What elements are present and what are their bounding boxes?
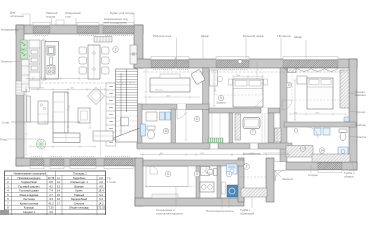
svg-text:10: 10	[164, 129, 168, 133]
coffee table	[78, 108, 90, 123]
svg-text:Прихожая-коридор: Прихожая-коридор	[18, 176, 41, 180]
svg-text:Гардеробный: Гардеробный	[71, 197, 88, 201]
leader bed2	[245, 38, 247, 61]
shower room lines	[211, 113, 213, 138]
window K1 top-left	[33, 27, 50, 34]
svg-text:41.2: 41.2	[48, 201, 54, 205]
node room9	[218, 95, 224, 101]
door gap wall C	[261, 108, 268, 114]
svg-text:Гостевой санузел: Гостевой санузел	[18, 184, 40, 188]
svg-text:Зеркало: Зеркало	[216, 102, 226, 105]
window B4 top-right wide	[283, 61, 338, 68]
svg-text:Общая площадь: Общая площадь	[69, 206, 90, 210]
shoe cabinet hatch 2	[312, 154, 350, 162]
wall bottom-right block	[272, 162, 357, 170]
porch door gap	[274, 162, 286, 170]
dryer cabinet	[227, 164, 238, 174]
window S3 bottom-left	[70, 159, 96, 166]
sill B2	[176, 57, 189, 60]
window S5 bottom-right	[318, 163, 342, 170]
svg-text:4.2: 4.2	[49, 184, 53, 188]
svg-text:6: 6	[167, 172, 169, 176]
svg-text:Бойлер: Бойлер	[356, 123, 366, 127]
node room1	[244, 164, 250, 170]
svg-text:Буфет для посуды: Буфет для посуды	[110, 11, 135, 15]
svg-text:Кухня: Кухня	[76, 189, 84, 193]
entry bench hatch	[241, 188, 267, 197]
svg-text:2.0: 2.0	[99, 176, 103, 180]
sink right bath	[338, 147, 348, 156]
leader pled	[7, 138, 40, 140]
svg-text:Шкаф: Шкаф	[294, 35, 303, 39]
svg-text:Мини-кладовая: Мини-кладовая	[20, 193, 39, 197]
svg-text:Спальня дет. 1: Спальня дет. 1	[70, 180, 88, 184]
svg-text:1800: 1800	[236, 75, 240, 77]
svg-text:Полотенцесушитель: Полотенцесушитель	[206, 209, 234, 213]
node room2	[113, 47, 119, 53]
leader island	[51, 18, 53, 24]
svg-text:3200: 3200	[26, 89, 28, 93]
node room7	[250, 129, 256, 135]
svg-text:1 этаж: 1 этаж	[107, 180, 116, 184]
wall top-right block	[134, 59, 357, 68]
leader right low1	[310, 165, 312, 173]
stairs outline	[116, 69, 138, 142]
leader wardrobe2	[202, 38, 204, 61]
svg-text:Наименование помещений: Наименование помещений	[14, 171, 47, 175]
svg-text:Рабочая зона: Рабочая зона	[153, 34, 172, 38]
dashed ceiling box bedroom	[215, 70, 262, 95]
washbasin	[146, 112, 157, 121]
window S4 bottom-left	[104, 159, 133, 166]
wall entry right	[266, 158, 274, 202]
wall small-bath left	[137, 104, 142, 148]
svg-text:2450: 2450	[166, 95, 170, 97]
leader dining	[75, 18, 77, 25]
plant boxes green	[21, 40, 28, 49]
leader towel	[221, 198, 223, 209]
svg-text:900: 900	[160, 153, 163, 155]
svg-text:Зеркало: Зеркало	[282, 177, 294, 181]
sill S2	[50, 166, 64, 169]
svg-text:Кондиционер: Кондиционер	[243, 152, 261, 156]
door gap wall E left	[210, 143, 218, 149]
dining chairs right	[102, 47, 110, 54]
sill B4	[283, 57, 338, 60]
radiator dashes under windows	[31, 36, 247, 157]
leader rozetki	[11, 61, 20, 63]
svg-text:7.4: 7.4	[49, 189, 53, 193]
svg-text:12: 12	[287, 83, 291, 87]
window B1 top-right	[151, 61, 175, 68]
svg-text:13: 13	[301, 147, 305, 151]
TV unit	[27, 96, 31, 122]
dashed line bedrooms	[143, 71, 348, 73]
svg-text:машина: машина	[355, 93, 366, 97]
svg-text:171.53: 171.53	[97, 206, 105, 210]
svg-text:Шкаф: Шкаф	[201, 34, 210, 38]
dim line living v	[67, 93, 69, 127]
tall cupboard right of dining	[130, 45, 137, 64]
svg-text:850: 850	[294, 112, 297, 114]
corner dark box	[0, 210, 9, 215]
shoe cabinet hatch 1	[286, 146, 313, 158]
sill S1	[30, 166, 44, 169]
svg-text:Санузел 1: Санузел 1	[23, 210, 36, 214]
wall bathrow v1	[229, 113, 233, 143]
desk bedroom	[210, 70, 218, 86]
side console	[38, 101, 48, 124]
stairs break line	[114, 128, 140, 138]
shelf hatch bedroom3	[288, 68, 297, 73]
leader tv	[280, 38, 282, 61]
door gap wall B	[177, 104, 186, 110]
svg-text:Стирка: Стирка	[308, 173, 318, 177]
dim line living h1	[31, 89, 105, 91]
door arc room6	[150, 166, 158, 174]
svg-text:5.2: 5.2	[99, 193, 103, 197]
leader right4	[350, 136, 356, 138]
vanity double sink	[200, 182, 214, 192]
big table TV zone	[150, 78, 190, 92]
hatched cabinet strip	[235, 114, 241, 140]
porch door arc	[275, 170, 286, 181]
leader sliv	[11, 121, 80, 123]
kitchen dim line	[26, 78, 88, 80]
wall small-bath mid	[171, 109, 176, 144]
svg-text:9: 9	[220, 96, 222, 100]
bath7 panel lines	[261, 113, 263, 143]
wall right	[349, 59, 357, 170]
kitchen island	[42, 40, 59, 80]
bookshelf left of stairs	[106, 83, 116, 146]
window left wall	[16, 81, 24, 95]
wall under-bedrooms	[209, 108, 280, 113]
interior walls	[137, 68, 356, 198]
node room10	[163, 128, 169, 134]
sideboard under window	[94, 37, 112, 43]
svg-text:Лестница: Лестница	[23, 197, 35, 201]
sill B1	[151, 57, 175, 60]
toilet small bath	[147, 126, 155, 130]
room6 bottom rect	[152, 194, 178, 198]
leader right3	[350, 124, 356, 126]
leader zerkalo	[274, 170, 281, 177]
svg-text:Унитаз: Унитаз	[357, 135, 367, 139]
stairs treads dashed lower	[116, 116, 138, 131]
wall item blue	[344, 117, 349, 122]
svg-text:Главный: Главный	[74, 193, 85, 197]
washer blue	[227, 185, 238, 197]
door arc bath5	[206, 166, 213, 173]
kitchen dim numbers	[26, 77, 64, 132]
sill S4	[104, 166, 133, 169]
sofa vertical	[53, 92, 68, 133]
wall bottom-rooms top	[143, 160, 244, 166]
dashed ceiling box bedroom3	[292, 72, 342, 100]
top-left outside dim ticks	[56, 20, 64, 25]
svg-text:обувницей: обувницей	[240, 212, 255, 216]
wall left	[16, 25, 24, 166]
corridor wardrobe hatch	[275, 128, 282, 142]
node room5	[194, 171, 200, 177]
armchair rotated	[88, 88, 105, 105]
right room dim	[294, 80, 296, 120]
svg-text:2: 2	[115, 48, 117, 52]
shower heads blue pair	[160, 112, 165, 120]
window B2 top-right	[176, 61, 189, 68]
svg-text:Коридор: Коридор	[24, 206, 35, 210]
ottoman	[93, 131, 113, 141]
laundry shelf	[222, 182, 226, 194]
svg-text:ТВ зона: ТВ зона	[155, 90, 164, 92]
sill B3	[216, 57, 249, 60]
wall bedroom2 right	[280, 68, 287, 162]
leader right1	[350, 93, 355, 95]
wall step vertical	[134, 25, 143, 68]
svg-text:Большой шкаф: Большой шкаф	[243, 34, 264, 38]
svg-text:9.4: 9.4	[49, 197, 53, 201]
svg-text:1200: 1200	[200, 153, 204, 155]
window S2 bottom-left	[50, 159, 64, 166]
shower bottom bath	[201, 167, 210, 176]
wall room6/bath divider	[196, 166, 200, 198]
node room14	[319, 148, 325, 154]
desk bedroom3	[297, 76, 307, 84]
svg-text:Слив: Слив	[2, 120, 9, 124]
svg-text:1: 1	[246, 165, 248, 169]
svg-text:Розетки: Розетки	[1, 60, 12, 64]
svg-text:14: 14	[320, 149, 324, 153]
window K2 top-left	[77, 27, 99, 34]
svg-text:4: 4	[228, 172, 230, 176]
node room8	[194, 116, 200, 122]
extra dimension chains	[25, 75, 347, 155]
door arc wall F	[307, 127, 318, 138]
svg-text:4.0: 4.0	[99, 180, 103, 184]
svg-text:6.8: 6.8	[49, 180, 53, 184]
stairs landing box	[121, 118, 129, 126]
svg-text:Гостиный диван: Гостиный диван	[19, 189, 39, 193]
sill K1	[33, 22, 50, 25]
window K3 top-left	[103, 27, 134, 34]
svg-text:7: 7	[252, 130, 254, 134]
node room13	[300, 146, 306, 152]
wall bath/laundry divider	[217, 166, 221, 198]
wall entry left	[238, 158, 244, 202]
svg-text:5.4: 5.4	[99, 197, 103, 201]
wall step bottom	[135, 158, 143, 206]
svg-text:остальных: остальных	[10, 14, 25, 18]
bedroom dim vertical	[213, 70, 215, 106]
node room13b	[294, 129, 298, 133]
leader sideboard	[133, 14, 135, 26]
svg-text:4.9: 4.9	[99, 184, 103, 188]
wall top-left block	[16, 25, 143, 34]
bedroom dim marks	[256, 62, 258, 79]
toilet bottom bath	[214, 169, 218, 176]
stairs treads	[116, 72, 138, 111]
leader coffee	[119, 24, 121, 27]
svg-text:2.7: 2.7	[49, 193, 53, 197]
door gap wall E right	[250, 143, 258, 149]
svg-text:Кухня-гостиная: Кухня-гостиная	[20, 201, 39, 205]
wardrobe hatch bedroom3	[340, 70, 349, 108]
leader cond entry	[263, 152, 288, 154]
svg-text:1750: 1750	[315, 112, 319, 114]
svg-text:7.20: 7.20	[48, 206, 54, 210]
svg-text:обувью: обувью	[344, 175, 355, 179]
curtain swags window B4	[284, 69, 338, 72]
plant circle	[36, 139, 46, 149]
dim vertical near stairs	[145, 70, 147, 104]
svg-text:1500: 1500	[69, 105, 71, 109]
stairs center stringer	[126, 69, 128, 112]
toilet right bath	[339, 129, 347, 133]
leader right2	[350, 111, 356, 113]
green bench	[208, 138, 223, 143]
svg-text:Кондиционер: Кондиционер	[1, 27, 19, 31]
wall small-bath top	[137, 104, 209, 110]
dining chairs left	[79, 47, 109, 74]
leader plants	[21, 14, 30, 26]
leader cond left	[15, 28, 24, 30]
leader bed1	[176, 38, 178, 61]
dining table	[88, 45, 100, 79]
table frame	[5, 171, 106, 215]
nightstand m1	[229, 79, 233, 85]
wall corridor north	[137, 143, 292, 149]
corridor dim line	[140, 154, 290, 156]
room6 inner outline	[146, 167, 188, 187]
svg-text:Гардеробная: Гардеробная	[21, 180, 37, 184]
svg-text:14.2: 14.2	[98, 201, 104, 205]
svg-text:2200: 2200	[215, 88, 217, 92]
bathtub	[243, 118, 260, 129]
sill K3	[103, 22, 134, 25]
bed master	[233, 79, 263, 107]
dim numbers	[26, 75, 319, 155]
svg-text:стол: стол	[65, 15, 71, 19]
svg-text:1640: 1640	[70, 88, 74, 90]
leader washer	[228, 198, 230, 208]
window B3 top-right	[216, 61, 249, 68]
shower heads	[314, 128, 321, 135]
wall bottom-left	[16, 158, 137, 166]
kitchen tall cabinets	[29, 40, 40, 88]
wall cabinet narrow	[22, 60, 30, 92]
sill K2	[77, 22, 99, 25]
leader room6	[175, 186, 177, 207]
svg-text:Спальня: Спальня	[74, 201, 85, 205]
node window marker	[238, 60, 242, 64]
svg-text:5: 5	[196, 172, 198, 176]
svg-text:Площадь 1: Площадь 1	[73, 171, 87, 175]
svg-text:Сушил.: Сушил.	[356, 110, 366, 114]
wall bottom-center	[135, 198, 244, 206]
towel rail blue	[141, 124, 146, 136]
window S1 bottom-left	[30, 159, 44, 166]
wall bathrow v2	[268, 113, 274, 143]
bed 3	[307, 78, 333, 109]
sofa horizontal	[53, 133, 80, 143]
svg-text:3.9: 3.9	[49, 210, 53, 214]
leader right top	[305, 40, 307, 59]
node room4	[226, 171, 232, 177]
svg-text:огород: огород	[46, 15, 55, 19]
tilted chair	[191, 69, 206, 84]
svg-text:ней холодильник: ней холодильник	[104, 20, 128, 24]
svg-text:2870: 2870	[40, 88, 44, 90]
leader bench	[251, 197, 253, 208]
leader right low2	[352, 163, 354, 170]
svg-text:Ванная: Ванная	[75, 184, 84, 188]
svg-text:Гидробокс: Гидробокс	[73, 176, 86, 180]
svg-text:ТВ панель: ТВ панель	[277, 34, 291, 38]
svg-text:8: 8	[196, 117, 198, 121]
svg-text:16.78: 16.78	[48, 176, 55, 180]
svg-text:Плед: Плед	[0, 138, 7, 142]
dim line living h2	[11, 121, 80, 123]
stairs arrow	[120, 73, 122, 135]
room6 dashed line	[145, 186, 194, 188]
node room6	[165, 171, 171, 177]
wall right-block mid	[284, 122, 356, 127]
entry dashed line	[240, 176, 266, 178]
wall living/bedroom divider	[203, 68, 210, 149]
svg-text:16.4: 16.4	[98, 189, 104, 193]
sill S3	[70, 166, 96, 169]
door arc wallD	[282, 100, 292, 110]
dashed zone line kitchen	[41, 82, 134, 84]
door gaps	[177, 104, 268, 149]
window sills outside	[30, 22, 338, 169]
zone line living	[100, 86, 102, 157]
svg-text:сушильная машина: сушильная машина	[156, 212, 183, 216]
node room12	[286, 82, 292, 88]
